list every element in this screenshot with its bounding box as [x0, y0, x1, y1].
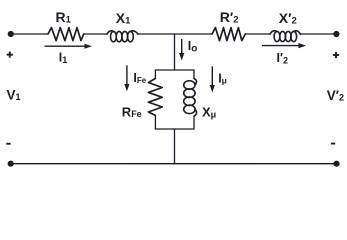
current arrow IFe: [124, 65, 129, 91]
polarity minus right: [331, 143, 335, 145]
resistor R'2: [212, 28, 245, 41]
node right bottom terminal: [333, 161, 339, 167]
inductor X1: [107, 31, 138, 42]
inductor X'2: [270, 31, 301, 42]
wire shunt to bottom rail: [174, 129, 176, 164]
polarity minus left: [6, 143, 10, 145]
wire top-left segment: [11, 33, 48, 35]
wire left shunt branch lower: [154, 115, 156, 129]
wire X1 to R'2 (through centre node): [138, 33, 212, 35]
resistor R1: [48, 28, 84, 41]
current arrow I1: [45, 44, 93, 49]
wire right shunt branch lower: [193, 116, 195, 129]
wire R'2 to X'2: [245, 33, 270, 35]
wire right shunt branch upper: [193, 70, 195, 79]
inductor Xmu: [184, 79, 197, 117]
resistor RFe: [148, 78, 162, 115]
node left bottom terminal: [8, 161, 14, 167]
wire X'2 to right terminal: [301, 33, 337, 35]
wire shunt top bar: [155, 69, 194, 71]
current arrow I0: [179, 39, 184, 61]
polarity plus left: [7, 52, 13, 58]
wire left shunt branch upper: [154, 70, 156, 78]
node left top terminal: [8, 31, 14, 37]
polarity plus right: [333, 52, 339, 58]
current arrow Imu: [210, 66, 215, 92]
node right top terminal: [333, 31, 339, 37]
wire centre vertical from top rail to shunt: [174, 34, 176, 70]
wire bottom rail: [11, 163, 337, 165]
current arrow I'2: [262, 43, 306, 48]
wire R1 to X1: [84, 33, 107, 35]
wire shunt bottom bar: [155, 128, 194, 130]
